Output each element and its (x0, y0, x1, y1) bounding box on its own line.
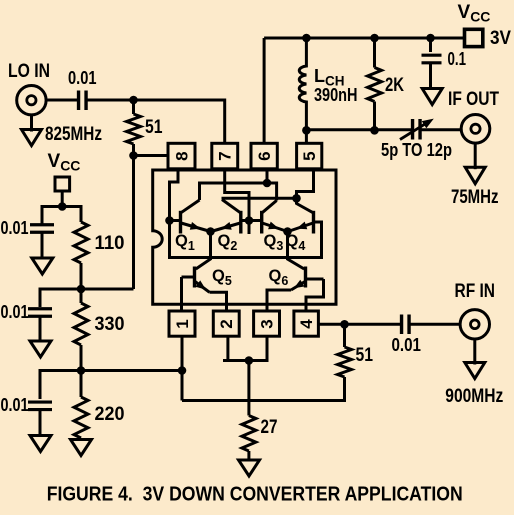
svg-text:2: 2 (217, 319, 236, 328)
node VCC left label (48, 151, 81, 174)
svg-text:4: 4 (297, 319, 316, 329)
svg-text:FIGURE 4. 3V DOWN CONVERTER A: FIGURE 4. 3V DOWN CONVERTER APPLICATION (47, 484, 463, 506)
resistor R7 2K (368, 38, 405, 130)
svg-text:75MHz: 75MHz (451, 187, 499, 208)
ground under C2 (32, 258, 53, 274)
ground under C3 (30, 341, 51, 357)
node rail junction L (302, 34, 311, 43)
capacitor C3 0.01 (1, 302, 53, 322)
wire C3 to gnd (39, 317, 42, 342)
node 75MHz label (451, 187, 499, 208)
wire C4 to gnd (39, 410, 42, 436)
wire bias1 to left rail (81, 288, 134, 291)
pin 3 box (254, 311, 280, 336)
wire Q1 base (170, 219, 181, 222)
svg-text:0.01: 0.01 (68, 68, 97, 88)
wire bias2 to pin1 node (81, 369, 182, 372)
wire C5 to RF IN (410, 323, 461, 326)
wire pin5 riser (305, 130, 308, 144)
wire C2C4 rail (222, 197, 297, 200)
svg-text:51: 51 (145, 117, 163, 138)
svg-text:3: 3 (257, 319, 276, 328)
wire Q1Q2 em to Q5 (196, 232, 211, 270)
node bias junction 2 (77, 366, 86, 375)
capacitor C2 0.01 (1, 218, 55, 238)
caption FIGURE 4 (47, 484, 463, 506)
capacitor C4 0.01 (1, 395, 53, 415)
transistor Q6 (269, 267, 324, 291)
resistor R5 27 (242, 361, 278, 461)
node Q3Q4 emitters (283, 227, 292, 236)
resistor R3 330 (74, 289, 125, 371)
node pin6 junction (263, 179, 272, 188)
node R1 bottom junction (129, 151, 138, 160)
svg-text:330: 330 (95, 314, 125, 335)
svg-text:110: 110 (95, 233, 125, 254)
node LO junction (129, 96, 138, 105)
wire Q2-Q3 base bar (241, 219, 262, 222)
wire rail to R51 bottom (182, 377, 345, 401)
wire tank rail (306, 128, 412, 131)
svg-text:0.01: 0.01 (1, 302, 29, 322)
ground under RF IN (465, 339, 485, 379)
node pin5 junction (292, 194, 301, 203)
connector J1 LO IN (17, 86, 46, 115)
wire pin7 to bases (225, 168, 249, 234)
node tank junction L (302, 126, 311, 135)
power VCC left terminal (55, 177, 70, 191)
node 900MHz label (445, 386, 503, 407)
svg-text:390nH: 390nH (314, 85, 358, 105)
svg-text:220: 220 (95, 404, 125, 425)
pin 7 box (212, 143, 238, 169)
wire pin8 base loop (170, 168, 322, 258)
resistor R4 220 (74, 371, 125, 439)
node RF junction (340, 320, 349, 329)
ground under LO IN (22, 116, 42, 146)
node LO IN label (8, 61, 50, 82)
IC U1 outline (153, 170, 336, 304)
node tank junction R (370, 126, 379, 135)
wire junction to pin8 (134, 154, 170, 157)
pin 2 box (213, 311, 239, 336)
wire Q3Q4 em to Q6 (288, 232, 305, 270)
pin 4 box (294, 311, 319, 336)
svg-text:900MHz: 900MHz (445, 386, 503, 407)
wire pin5 internal (297, 168, 314, 198)
svg-text:2K: 2K (385, 75, 404, 96)
wire pin6 internal (266, 168, 269, 183)
wire pin2 down (226, 336, 229, 361)
wire Q6 emitter to pin3 (267, 290, 291, 312)
node VCC top label (458, 2, 491, 25)
wire junction to C5 (345, 323, 401, 326)
svg-text:LO IN: LO IN (8, 61, 50, 82)
wire VCC to R110 (62, 207, 81, 223)
node RF IN label (455, 281, 496, 302)
wire pin1 down (181, 336, 184, 401)
svg-text:825MHz: 825MHz (45, 124, 102, 145)
capacitor 0.01 LO coupling (68, 68, 97, 110)
svg-text:7: 7 (216, 151, 235, 160)
wire to C2 (42, 207, 62, 225)
wire Q5 emitter to pin2 (210, 292, 227, 312)
wire Q4 collector (295, 198, 298, 204)
wire Q6 base to pin4 (306, 279, 324, 312)
power VCC terminal 3V (465, 29, 483, 46)
pin 1 box (169, 311, 195, 336)
wire LO to C1 (46, 99, 77, 102)
connector J3 IF OUT (461, 115, 490, 144)
resistor R1 51 (127, 100, 163, 156)
capacitor C7 variable 5p-12p (381, 119, 452, 160)
node rail junction R2K (370, 34, 379, 43)
svg-text:0.01: 0.01 (392, 335, 422, 355)
wire to C3 (40, 289, 81, 307)
ground under C4 (30, 436, 51, 452)
transistor Q5 (182, 267, 232, 293)
ground under R4 (71, 440, 92, 456)
svg-text:1: 1 (173, 319, 192, 328)
wire pin3 down (266, 336, 269, 361)
wire to C4 (40, 371, 81, 400)
svg-text:5p TO 12p: 5p TO 12p (381, 140, 452, 160)
node 825MHz label (45, 124, 102, 145)
svg-text:0.1: 0.1 (448, 49, 467, 69)
pin 5 box (297, 143, 322, 169)
inductor L_CH 390nH (299, 38, 357, 130)
node emitter junction (245, 356, 254, 365)
wire junction to pin7 (134, 100, 225, 144)
svg-text:8: 8 (172, 151, 191, 160)
node pin1 rail junction (178, 366, 187, 375)
svg-text:27: 27 (261, 417, 278, 438)
node Q1Q2 emitters (206, 227, 215, 236)
wire top rail (264, 37, 465, 40)
resistor R2 110 (74, 222, 125, 289)
node rail junction C6 (426, 34, 435, 43)
transistor Q4 (286, 204, 314, 254)
ground under C6 (422, 89, 442, 105)
transistor Q1 (175, 200, 211, 253)
svg-text:6: 6 (255, 151, 274, 160)
svg-text:0.01: 0.01 (1, 218, 29, 238)
ground under R5 (239, 460, 260, 476)
node IF OUT label (448, 89, 499, 110)
wire VCC sq down (61, 191, 64, 207)
capacitor C6 0.1 (422, 38, 467, 89)
capacitor C5 0.01 RF (392, 315, 422, 356)
resistor R6 51 (338, 324, 374, 377)
wire C1C3 rail (200, 183, 277, 201)
wire pin2-pin3 bar (223, 359, 269, 362)
svg-text:51: 51 (356, 345, 374, 366)
node 3V label (490, 28, 511, 49)
svg-text:0.01: 0.01 (1, 395, 29, 415)
wire Q5 base to pin1 (180, 277, 183, 312)
wire pin4 to junction (318, 323, 344, 326)
connector J2 RF IN (460, 310, 489, 339)
wire C1 to junction (87, 99, 134, 102)
transistor Q2 (211, 200, 241, 254)
pin 8 box (168, 143, 195, 169)
node VCC left junction (58, 202, 67, 211)
wire rail down to pin6 (263, 38, 266, 144)
wire junction down left rail (132, 156, 135, 290)
node Q1 base junction (165, 216, 174, 225)
node Q2Q3 base junction (245, 216, 254, 225)
transistor Q3 (262, 201, 288, 254)
wire C2 to gnd (41, 233, 44, 258)
svg-text:3V: 3V (490, 28, 511, 49)
svg-text:IF OUT: IF OUT (448, 89, 499, 110)
ground under IF OUT (465, 142, 485, 184)
node bias junction 1 (77, 285, 86, 294)
pin 6 box (251, 143, 277, 169)
svg-text:5: 5 (300, 151, 319, 160)
svg-text:RF IN: RF IN (455, 281, 496, 302)
wire varcap to IF OUT (421, 128, 462, 131)
